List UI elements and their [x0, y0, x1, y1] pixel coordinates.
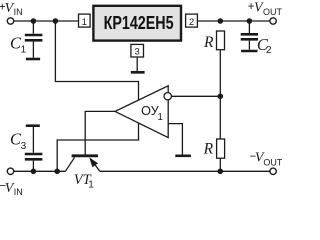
svg-text:1: 1 [88, 179, 94, 190]
label +Vout [248, 0, 283, 16]
ground above C3 [26, 124, 40, 127]
ground below op-amp input [175, 155, 191, 158]
svg-text:R: R [203, 34, 214, 51]
pin 1 [79, 14, 91, 28]
terminal -Vout [270, 168, 276, 174]
ground below C2 [241, 50, 257, 53]
node divider midpoint [218, 94, 224, 100]
resistor R top [217, 31, 225, 50]
node C3 tap [31, 169, 37, 175]
label C3 [10, 130, 27, 152]
wire non-inverting input to ground [168, 124, 182, 155]
transistor VT1 [65, 156, 99, 172]
capacitor C1 [25, 21, 43, 58]
node C2 tap [247, 18, 253, 24]
wire op-amp output to base [85, 111, 115, 155]
wire R bottom to rail [219, 159, 221, 172]
label C1 [10, 34, 27, 56]
capacitor C3 [25, 127, 43, 171]
svg-text:2: 2 [189, 17, 194, 28]
svg-text:3: 3 [21, 141, 27, 152]
svg-text:2: 2 [266, 45, 272, 56]
node C1 tap [31, 18, 37, 24]
label C2 [257, 35, 272, 56]
terminal +Vin [7, 18, 13, 24]
terminal -Vin [7, 168, 13, 174]
svg-text:1: 1 [21, 44, 27, 55]
ground below C1 [26, 58, 40, 61]
resistor R bottom [217, 139, 225, 158]
op-amp OU1 [115, 86, 171, 138]
svg-text:1: 1 [157, 112, 163, 123]
svg-text:КР142ЕН5: КР142ЕН5 [104, 13, 174, 33]
regulator U1 KR142EN5 [93, 6, 181, 41]
wire bottom-left rail [14, 170, 66, 172]
wire +supply to op-amp top pin [55, 21, 138, 101]
wire divider [219, 50, 221, 138]
wire inverting input [172, 95, 220, 97]
node R bottom tap [218, 169, 224, 175]
ground below pin 3 [131, 71, 145, 74]
svg-text:3: 3 [135, 47, 140, 58]
pin 2 [186, 14, 198, 28]
label +Vin [0, 1, 23, 17]
wire -supply from op-amp bottom pin [57, 123, 138, 171]
capacitor C2 [241, 21, 258, 50]
svg-text:R: R [203, 141, 214, 158]
label OU1 [141, 103, 163, 123]
terminal +Vout [270, 18, 276, 24]
wire top-right rail [198, 20, 270, 22]
wire bottom-right rail [100, 170, 270, 172]
wire pin 3 to ground [136, 58, 138, 71]
svg-text:1: 1 [82, 17, 87, 28]
label -Vin [0, 181, 23, 197]
node -supply on bottom rail [54, 169, 60, 175]
label VT1 [74, 172, 95, 190]
svg-text:OUT: OUT [263, 157, 282, 167]
label -Vout [250, 151, 283, 168]
wire top-left rail [14, 20, 78, 22]
node R divider top tap [218, 18, 224, 24]
pin 3 [131, 44, 144, 57]
svg-text:IN: IN [14, 7, 23, 17]
svg-text:IN: IN [14, 187, 23, 195]
node op-amp +supply tap [53, 18, 59, 24]
svg-text:OUT: OUT [263, 7, 282, 17]
